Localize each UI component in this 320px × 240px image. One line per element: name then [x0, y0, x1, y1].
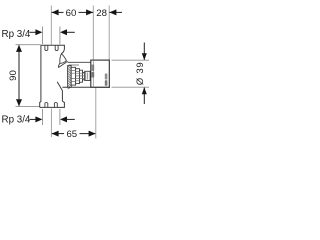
leader arrow Rp3/4 top right — [67, 31, 75, 33]
cartridge step A — [71, 67, 75, 85]
extension line body top left — [16, 44, 41, 46]
extension line thread left bottom — [42, 109, 44, 125]
svg-text:60: 60 — [66, 8, 77, 19]
extension line housing rear face — [108, 6, 110, 61]
valve seat teardrop — [60, 54, 67, 64]
extension line housing front face — [92, 6, 94, 61]
extension line housing top right — [112, 59, 150, 61]
extension line body bottom left — [16, 105, 40, 107]
dimension 60 — [52, 11, 94, 13]
valve body outline left wall — [40, 45, 41, 107]
branch top edge — [68, 61, 91, 63]
cartridge step B — [76, 69, 80, 84]
leader arrow Rp3/4 bottom left — [30, 118, 37, 120]
svg-text:Rp 3/4: Rp 3/4 — [2, 29, 31, 40]
bottom collar — [40, 101, 65, 107]
seat diagonal upper — [58, 61, 67, 67]
extension line housing bottom right — [112, 86, 150, 88]
svg-text:Rp 3/4: Rp 3/4 — [2, 114, 31, 125]
valve body top crown — [41, 45, 65, 49]
leader arrow Rp3/4 top left — [30, 31, 37, 33]
protective housing box — [91, 60, 110, 87]
crown prong bottom right — [54, 102, 57, 107]
svg-text:Ø 39: Ø 39 — [135, 62, 146, 86]
inner wall curve — [58, 63, 60, 67]
extension line centerline top — [50, 6, 52, 45]
seat diagonal lower — [57, 82, 62, 101]
leader arrow Rp3/4 bottom right — [67, 118, 75, 120]
cartridge section lines — [71, 71, 88, 82]
extension line thread right bottom — [59, 109, 61, 125]
branch bottom edge — [62, 86, 110, 88]
crown prong top right — [55, 45, 58, 50]
cartridge step C — [80, 70, 83, 82]
cartridge neck — [83, 72, 85, 79]
housing label text left — [92, 65, 95, 78]
extension line thread right top — [59, 27, 61, 45]
crown prong bottom left — [45, 102, 48, 107]
svg-text:65: 65 — [66, 129, 77, 140]
housing inner line — [92, 60, 94, 87]
housing label text right — [105, 74, 108, 86]
extension line wall face bottom — [95, 88, 97, 139]
right wall top stub — [61, 49, 64, 53]
extension line centerline bottom — [50, 109, 52, 138]
dimension 90 — [18, 45, 20, 106]
crown prong top left — [45, 45, 48, 50]
dimension diameter 39 — [143, 43, 145, 61]
flange hatched — [68, 65, 72, 89]
extension line thread left top — [42, 27, 44, 45]
svg-text:90: 90 — [8, 70, 19, 81]
svg-text:28: 28 — [96, 8, 107, 19]
cartridge end cap — [85, 71, 90, 80]
branch second edge — [69, 64, 79, 66]
dimension 65 — [52, 133, 96, 135]
